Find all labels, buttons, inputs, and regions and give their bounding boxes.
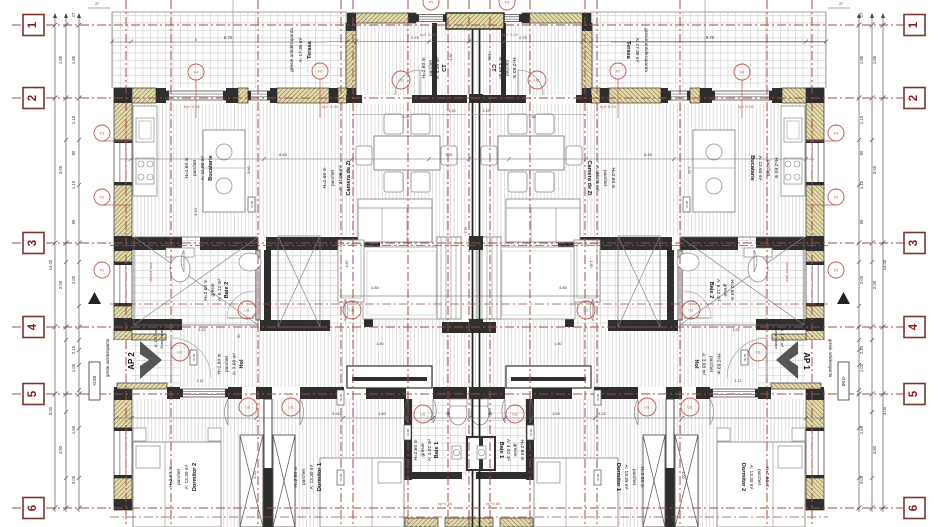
- svg-text:4.00: 4.00: [253, 471, 257, 478]
- svg-text:H=2.60 m: H=2.60 m: [293, 467, 299, 488]
- svg-text:F5: F5: [505, 0, 510, 5]
- svg-text:Ui1: Ui1: [644, 406, 649, 410]
- svg-text:Ui1: Ui1: [688, 309, 693, 313]
- svg-text:1.80: 1.80: [589, 261, 593, 268]
- svg-text:3.65: 3.65: [872, 165, 877, 174]
- svg-text:4.80: 4.80: [559, 285, 568, 290]
- svg-text:Dormitor 1: Dormitor 1: [317, 463, 323, 491]
- svg-text:gresie antiderapanta: gresie antiderapanta: [643, 28, 649, 72]
- svg-text:hp+ 0.00: hp+ 0.00: [600, 104, 616, 109]
- svg-text:1.50: 1.50: [552, 411, 561, 416]
- svg-text:A: 13.30 m²: A: 13.30 m²: [748, 465, 754, 490]
- svg-text:gresie: gresie: [210, 283, 216, 296]
- svg-text:1.80: 1.80: [487, 54, 491, 61]
- svg-text:25: 25: [446, 411, 451, 416]
- svg-text:Terasa: Terasa: [625, 41, 631, 60]
- svg-text:Ui1: Ui1: [245, 406, 250, 410]
- svg-text:Hol: Hol: [239, 359, 245, 368]
- svg-text:3.05: 3.05: [71, 475, 76, 484]
- svg-text:1.22: 1.22: [199, 328, 206, 332]
- svg-text:parchet: parchet: [176, 468, 182, 485]
- svg-text:parchet: parchet: [224, 355, 230, 372]
- svg-text:95: 95: [859, 219, 864, 224]
- svg-text:F4: F4: [740, 70, 745, 75]
- svg-text:hp+ 0.90: hp+ 0.90: [184, 104, 200, 109]
- svg-text:3.50: 3.50: [193, 207, 198, 216]
- svg-text:A: 6.12 m²: A: 6.12 m²: [715, 279, 721, 302]
- svg-text:parchet: parchet: [602, 170, 608, 187]
- svg-text:1.12: 1.12: [197, 379, 204, 383]
- svg-text:H=2.60 m: H=2.60 m: [217, 354, 223, 375]
- svg-text:H=2.60 m: H=2.60 m: [322, 168, 328, 189]
- svg-text:1.85: 1.85: [859, 55, 864, 64]
- svg-text:Ui1: Ui1: [177, 351, 182, 355]
- svg-text:H=2.60 m: H=2.60 m: [773, 158, 779, 179]
- svg-text:80: 80: [71, 150, 76, 155]
- svg-text:3.60: 3.60: [247, 166, 251, 173]
- svg-text:6: 6: [908, 505, 920, 511]
- svg-text:Masina Vase: Masina Vase: [785, 262, 789, 281]
- svg-text:1.50: 1.50: [378, 411, 387, 416]
- svg-text:3: 3: [908, 240, 920, 246]
- svg-text:gresie antiderapanta: gresie antiderapanta: [105, 338, 110, 377]
- svg-text:3.97: 3.97: [385, 376, 394, 381]
- svg-text:90: 90: [237, 334, 241, 338]
- svg-text:A: 4.02 m²: A: 4.02 m²: [427, 439, 433, 462]
- svg-text:F2: F2: [834, 268, 839, 273]
- svg-text:F6: F6: [616, 69, 621, 74]
- svg-text:-0.50: -0.50: [841, 376, 846, 387]
- svg-text:Masina Vase: Masina Vase: [149, 262, 153, 281]
- svg-text:27: 27: [839, 2, 843, 6]
- svg-text:14.00: 14.00: [882, 259, 887, 270]
- svg-text:1.22: 1.22: [733, 328, 740, 332]
- svg-text:3.00: 3.00: [48, 406, 53, 415]
- svg-text:1.15: 1.15: [71, 180, 76, 189]
- svg-text:3.05: 3.05: [859, 475, 864, 484]
- svg-text:parchet: parchet: [330, 169, 336, 186]
- svg-text:Zona intrare: Zona intrare: [774, 327, 779, 349]
- svg-text:hp+0.80: hp+0.80: [486, 501, 501, 506]
- svg-text:Camera de Zi: Camera de Zi: [586, 160, 592, 196]
- svg-text:1.15: 1.15: [859, 115, 864, 124]
- svg-text:1.15: 1.15: [483, 109, 490, 113]
- svg-text:3.32: 3.32: [332, 411, 341, 416]
- svg-text:Camera de Zi: Camera de Zi: [346, 160, 352, 196]
- svg-text:2.05: 2.05: [58, 280, 63, 289]
- svg-text:H=2.60 m: H=2.60 m: [421, 58, 427, 79]
- svg-text:27: 27: [95, 2, 99, 6]
- svg-text:1.50: 1.50: [377, 342, 384, 346]
- svg-text:Ui1: Ui1: [349, 309, 354, 313]
- svg-text:80: 80: [859, 150, 864, 155]
- svg-text:5: 5: [27, 390, 39, 397]
- svg-text:Ui1: Ui1: [398, 79, 403, 83]
- svg-text:H=2.60 m: H=2.60 m: [716, 354, 722, 375]
- svg-text:A: 4.39 m²: A: 4.39 m²: [435, 57, 441, 80]
- svg-text:Baie 2: Baie 2: [224, 282, 230, 298]
- svg-text:±0.00: ±0.00: [250, 200, 254, 208]
- svg-text:H=2.60 m: H=2.60 m: [168, 467, 174, 488]
- svg-text:F5: F5: [429, 0, 434, 5]
- svg-text:1.65: 1.65: [71, 425, 76, 434]
- svg-text:Ui1: Ui1: [288, 406, 293, 410]
- svg-text:F3: F3: [834, 131, 839, 136]
- svg-text:2.98: 2.98: [403, 115, 410, 119]
- svg-text:Ui1: Ui1: [755, 351, 760, 355]
- svg-text:±0.00: ±0.00: [596, 393, 600, 401]
- svg-text:5: 5: [908, 390, 920, 397]
- svg-text:27: 27: [859, 12, 864, 17]
- svg-text:AP 2: AP 2: [127, 352, 136, 370]
- svg-text:8.45: 8.45: [279, 152, 288, 157]
- svg-text:gresie: gresie: [420, 443, 426, 456]
- svg-text:parchet: parchet: [504, 60, 510, 77]
- svg-text:A: 17.35 m²: A: 17.35 m²: [634, 38, 640, 63]
- svg-text:1: 1: [27, 21, 39, 28]
- svg-text:A: 3.68 m²: A: 3.68 m²: [232, 353, 238, 376]
- svg-text:Ui1: Ui1: [687, 406, 692, 410]
- svg-text:1.80: 1.80: [449, 54, 453, 61]
- svg-text:1.85: 1.85: [58, 55, 63, 64]
- svg-text:hp+ 3.00: hp+ 3.00: [502, 32, 518, 37]
- svg-text:2.05: 2.05: [71, 275, 76, 284]
- svg-text:1.80: 1.80: [345, 261, 349, 268]
- svg-text:parchet: parchet: [756, 469, 762, 486]
- svg-text:H=2.60 m: H=2.60 m: [729, 280, 735, 301]
- svg-text:2.98: 2.98: [529, 115, 536, 119]
- svg-text:hp+ 0.90: hp+ 0.90: [738, 104, 754, 109]
- svg-text:2.05: 2.05: [859, 275, 864, 284]
- svg-text:Baie 2: Baie 2: [708, 282, 714, 298]
- svg-text:2.75: 2.75: [411, 35, 420, 40]
- svg-text:hp+0.00: hp+0.00: [810, 124, 814, 136]
- svg-text:Dormitor 2: Dormitor 2: [192, 463, 198, 491]
- svg-text:1.15: 1.15: [71, 115, 76, 124]
- svg-text:1.00: 1.00: [859, 363, 864, 372]
- svg-text:±0.00: ±0.00: [192, 353, 196, 361]
- svg-text:1.00: 1.00: [71, 363, 76, 372]
- svg-text:1.15: 1.15: [449, 109, 456, 113]
- svg-text:H=2.60 m: H=2.60 m: [639, 467, 645, 488]
- svg-text:25: 25: [488, 411, 493, 416]
- svg-text:4.00: 4.00: [681, 471, 685, 478]
- svg-text:±0.00: ±0.00: [339, 473, 343, 481]
- svg-text:3: 3: [27, 240, 39, 246]
- svg-text:5: 5: [195, 38, 197, 42]
- svg-text:AP 1: AP 1: [802, 352, 811, 370]
- svg-text:±0.00: ±0.00: [406, 428, 410, 436]
- svg-text:Ui1: Ui1: [583, 309, 588, 313]
- svg-text:4.80: 4.80: [872, 445, 877, 454]
- svg-text:parchet: parchet: [428, 59, 434, 76]
- svg-text:Bucatarie: Bucatarie: [749, 155, 755, 181]
- svg-text:5.70: 5.70: [224, 35, 233, 40]
- svg-text:Ui1: Ui1: [244, 309, 249, 313]
- svg-text:gresie antiderapanta: gresie antiderapanta: [289, 28, 295, 72]
- svg-text:F3: F3: [100, 131, 105, 136]
- svg-text:F2: F2: [100, 195, 105, 200]
- svg-text:parchet: parchet: [301, 468, 307, 485]
- svg-text:14.00: 14.00: [48, 259, 53, 270]
- svg-text:-0.50: -0.50: [92, 375, 97, 386]
- svg-text:4.80: 4.80: [58, 445, 63, 454]
- svg-text:1.12: 1.12: [735, 379, 742, 383]
- svg-text:parchet: parchet: [708, 356, 714, 373]
- svg-text:A: 17.35 m²: A: 17.35 m²: [298, 37, 304, 62]
- svg-text:parchet: parchet: [631, 469, 637, 486]
- svg-text:Ui1: Ui1: [534, 79, 539, 83]
- svg-text:gresie antiderapanta: gresie antiderapanta: [828, 339, 833, 378]
- svg-text:H=2.60 m: H=2.60 m: [413, 440, 419, 461]
- svg-text:2.30: 2.30: [446, 153, 453, 157]
- svg-text:A: 1.57 m²: A: 1.57 m²: [153, 328, 158, 347]
- svg-text:A: 6.12 m²: A: 6.12 m²: [217, 279, 223, 302]
- svg-text:6: 6: [27, 505, 39, 511]
- svg-text:parchet: parchet: [765, 160, 771, 177]
- svg-text:2.75: 2.75: [519, 35, 528, 40]
- svg-text:gresie: gresie: [722, 283, 728, 296]
- svg-text:1.15: 1.15: [859, 180, 864, 189]
- svg-text:±0.00: ±0.00: [743, 353, 747, 361]
- svg-text:±0.00: ±0.00: [529, 428, 533, 436]
- svg-text:2: 2: [908, 95, 920, 101]
- svg-text:F6: F6: [318, 69, 323, 74]
- svg-text:H=2.60 m: H=2.60 m: [184, 158, 190, 179]
- svg-text:1.65: 1.65: [859, 425, 864, 434]
- svg-text:7.70: 7.70: [464, 227, 468, 234]
- svg-text:A: 13.30 m²: A: 13.30 m²: [623, 465, 629, 490]
- svg-text:A: 13.30 m²: A: 13.30 m²: [184, 464, 190, 489]
- svg-text:H=2.60 m: H=2.60 m: [203, 280, 209, 301]
- svg-text:±0.00: ±0.00: [685, 200, 689, 208]
- svg-text:A: 34.08 m²: A: 34.08 m²: [338, 165, 344, 190]
- svg-text:Bucatarie: Bucatarie: [208, 155, 214, 181]
- svg-text:A: 11.90 m²: A: 11.90 m²: [200, 155, 206, 180]
- svg-text:1.50: 1.50: [555, 342, 562, 346]
- svg-text:Ui1: Ui1: [420, 413, 425, 417]
- svg-text:Terasa: Terasa: [307, 40, 313, 59]
- svg-text:1: 1: [908, 21, 920, 28]
- svg-text:A: 4.39 m²: A: 4.39 m²: [497, 57, 503, 80]
- svg-text:Baie 1: Baie 1: [498, 442, 504, 458]
- svg-text:F2: F2: [100, 268, 105, 273]
- svg-text:Dormitor 2: Dormitor 2: [740, 463, 746, 491]
- svg-text:Ui1: Ui1: [512, 413, 517, 417]
- svg-text:4: 4: [27, 323, 39, 330]
- svg-text:H=2.60 m: H=2.60 m: [519, 440, 525, 461]
- svg-text:±0.00: ±0.00: [596, 473, 600, 481]
- svg-text:2.15: 2.15: [859, 345, 864, 354]
- svg-text:3.32: 3.32: [598, 411, 607, 416]
- svg-text:A: 3.68 m²: A: 3.68 m²: [701, 353, 707, 376]
- svg-text:Dormitor 1: Dormitor 1: [615, 463, 621, 491]
- svg-text:Hol: Hol: [693, 359, 699, 368]
- svg-text:4.80: 4.80: [371, 285, 380, 290]
- svg-text:CT: CT: [442, 64, 448, 72]
- svg-text:hp+0.80: hp+0.80: [438, 501, 453, 506]
- svg-text:2.15: 2.15: [71, 345, 76, 354]
- svg-text:1.85: 1.85: [71, 55, 76, 64]
- svg-text:5.70: 5.70: [706, 35, 715, 40]
- svg-text:3.00: 3.00: [882, 406, 887, 415]
- svg-text:F4: F4: [194, 70, 199, 75]
- svg-text:95: 95: [71, 219, 76, 224]
- svg-text:A: 4.02 m²: A: 4.02 m²: [505, 439, 511, 462]
- svg-text:1.85: 1.85: [872, 55, 877, 64]
- svg-text:gresie: gresie: [512, 443, 518, 456]
- svg-text:27: 27: [71, 12, 76, 17]
- svg-text:H=2.60 m: H=2.60 m: [610, 168, 616, 189]
- svg-text:F2: F2: [834, 195, 839, 200]
- svg-text:hp+ 0.00: hp+ 0.00: [322, 104, 338, 109]
- svg-text:Zona intrare: Zona intrare: [159, 326, 164, 348]
- svg-text:A: 12.60 m²: A: 12.60 m²: [757, 156, 763, 181]
- svg-text:H=2.60 m: H=2.60 m: [764, 467, 770, 488]
- svg-text:CT: CT: [490, 64, 496, 72]
- svg-text:A: 1.57 m²: A: 1.57 m²: [780, 329, 785, 348]
- svg-text:2.05: 2.05: [872, 280, 877, 289]
- svg-text:3.65: 3.65: [58, 165, 63, 174]
- svg-text:A: 13.30 m²: A: 13.30 m²: [309, 464, 315, 489]
- svg-text:parchet: parchet: [192, 159, 198, 176]
- svg-text:4.20: 4.20: [545, 376, 554, 381]
- svg-text:Baie 1: Baie 1: [434, 442, 440, 458]
- svg-text:hp+ 3.00: hp+ 3.00: [420, 32, 436, 37]
- svg-text:8.45: 8.45: [644, 152, 653, 157]
- svg-text:4: 4: [908, 323, 920, 330]
- svg-text:3.60: 3.60: [687, 166, 691, 173]
- svg-text:2: 2: [27, 95, 39, 101]
- svg-text:H=2.60 m: H=2.60 m: [511, 58, 517, 79]
- svg-text:A: 34.08 m²: A: 34.08 m²: [594, 166, 600, 191]
- svg-text:±0.00: ±0.00: [339, 393, 343, 401]
- svg-text:hp+0.00: hp+0.00: [124, 124, 128, 136]
